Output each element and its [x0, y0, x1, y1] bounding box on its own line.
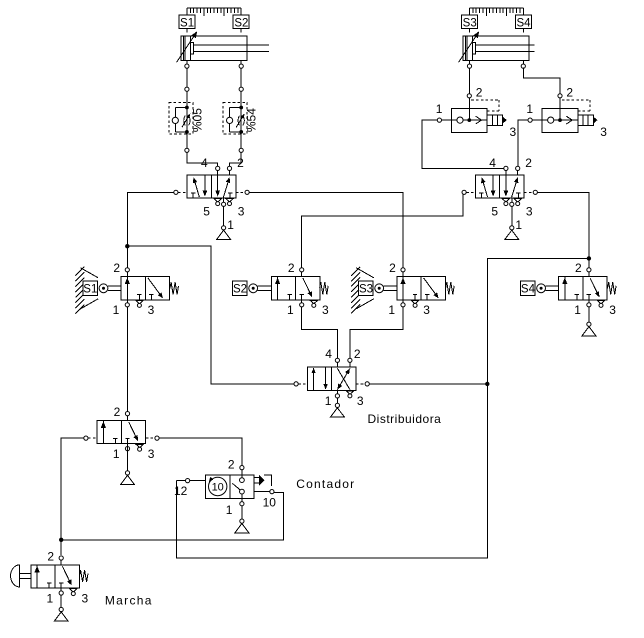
- svg-text:1: 1: [287, 303, 294, 317]
- svg-text:3: 3: [148, 303, 155, 317]
- svg-text:2: 2: [288, 261, 295, 275]
- svg-text:12: 12: [174, 484, 188, 498]
- svg-text:S4: S4: [521, 284, 536, 296]
- svg-text:10: 10: [212, 482, 224, 494]
- svg-text:3: 3: [600, 125, 607, 139]
- svg-text:5: 5: [491, 205, 498, 219]
- svg-text:1: 1: [227, 218, 234, 232]
- svg-text:4: 4: [201, 156, 208, 170]
- svg-text:S1: S1: [83, 284, 97, 296]
- svg-text:5: 5: [190, 108, 204, 115]
- svg-text:3: 3: [423, 303, 430, 317]
- svg-text:5: 5: [203, 205, 210, 219]
- svg-text:4: 4: [325, 347, 332, 361]
- svg-text:1: 1: [574, 303, 581, 317]
- svg-text:1: 1: [113, 447, 120, 461]
- svg-text:10: 10: [263, 496, 277, 510]
- svg-text:1: 1: [226, 503, 233, 517]
- svg-text:2: 2: [114, 405, 121, 419]
- svg-text:2: 2: [476, 86, 483, 100]
- svg-text:3: 3: [357, 394, 364, 408]
- svg-text:2: 2: [228, 458, 235, 472]
- svg-text:3: 3: [322, 303, 329, 317]
- svg-text:1: 1: [436, 102, 443, 116]
- svg-text:4: 4: [245, 108, 259, 115]
- svg-text:3: 3: [82, 591, 89, 605]
- svg-text:1: 1: [47, 591, 54, 605]
- svg-text:Marcha: Marcha: [105, 594, 153, 608]
- svg-text:1: 1: [113, 303, 120, 317]
- svg-text:S1: S1: [180, 17, 194, 29]
- svg-text:2: 2: [354, 347, 361, 361]
- svg-text:Distribuidora: Distribuidora: [368, 412, 442, 426]
- svg-text:1: 1: [526, 102, 533, 116]
- svg-text:3: 3: [609, 303, 616, 317]
- svg-text:3: 3: [148, 447, 155, 461]
- svg-text:2: 2: [389, 261, 396, 275]
- svg-text:S3: S3: [359, 284, 373, 296]
- svg-text:Contador: Contador: [296, 477, 355, 491]
- svg-text:%: %: [190, 121, 204, 132]
- svg-text:S3: S3: [463, 17, 477, 29]
- svg-text:S2: S2: [233, 284, 247, 296]
- svg-text:1: 1: [388, 303, 395, 317]
- svg-text:1: 1: [515, 218, 522, 232]
- svg-text:3: 3: [510, 125, 517, 139]
- svg-text:1: 1: [325, 394, 332, 408]
- svg-text:3: 3: [238, 205, 245, 219]
- svg-text:3: 3: [526, 205, 533, 219]
- svg-text:2: 2: [47, 549, 54, 563]
- svg-text:2: 2: [525, 156, 532, 170]
- svg-text:2: 2: [575, 261, 582, 275]
- svg-text:2: 2: [113, 261, 120, 275]
- svg-text:S2: S2: [234, 17, 248, 29]
- svg-text:2: 2: [237, 156, 244, 170]
- svg-text:%: %: [245, 121, 259, 132]
- svg-text:5: 5: [245, 114, 259, 121]
- svg-text:0: 0: [190, 114, 204, 121]
- svg-text:2: 2: [566, 86, 573, 100]
- svg-text:S4: S4: [516, 17, 531, 29]
